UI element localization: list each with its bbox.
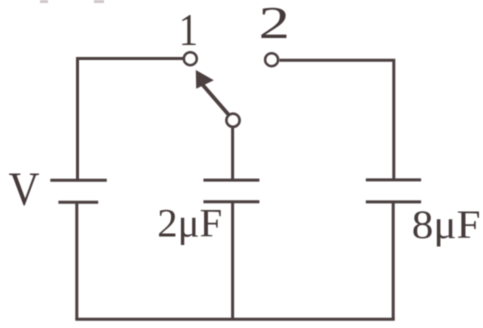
svg-text:2μF: 2μF bbox=[157, 201, 222, 246]
svg-text:2: 2 bbox=[259, 0, 290, 48]
svg-text:1: 1 bbox=[179, 5, 198, 56]
svg-text:V: V bbox=[9, 163, 40, 216]
svg-text:8μF: 8μF bbox=[412, 203, 481, 247]
